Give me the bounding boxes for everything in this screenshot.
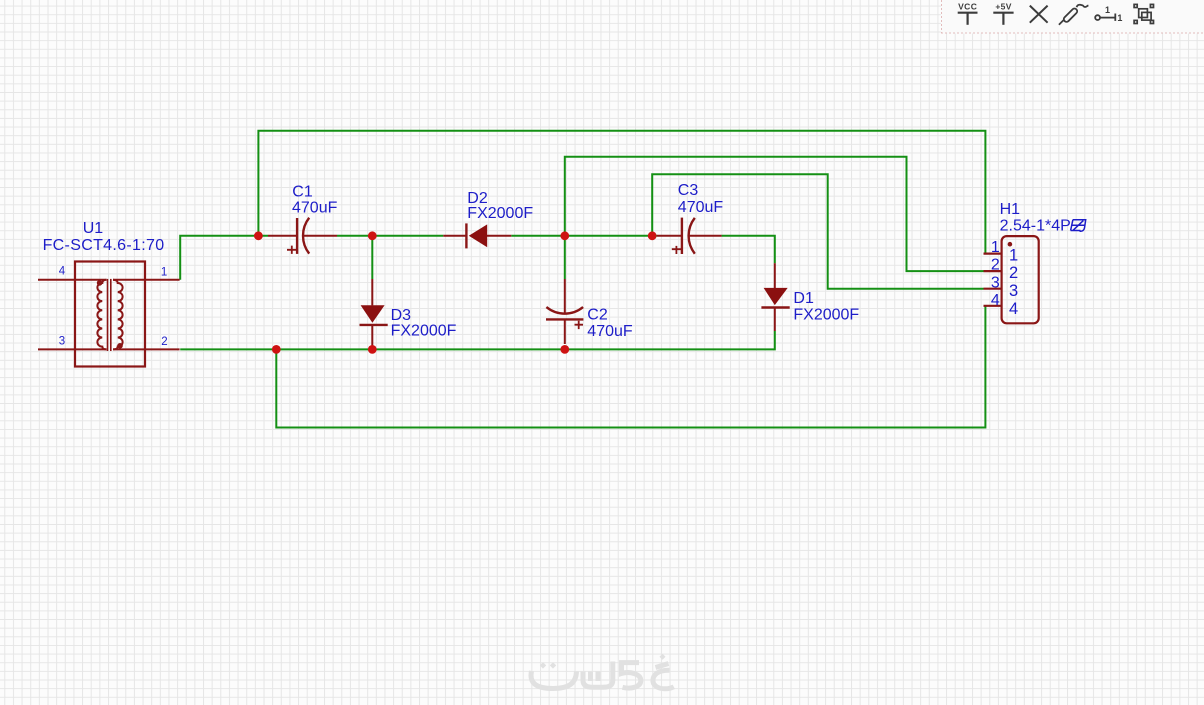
svg-text:2: 2 <box>161 336 167 348</box>
diode D1 <box>761 263 789 331</box>
svg-text:FX2000F: FX2000F <box>391 323 457 340</box>
svg-text:1: 1 <box>161 267 167 279</box>
toolbar icon VCC <box>958 13 978 25</box>
svg-text:470uF: 470uF <box>678 199 724 216</box>
toolbar icon no-connect X <box>1030 6 1048 23</box>
watermark khamsat <box>531 654 674 689</box>
diode D3 <box>360 279 388 346</box>
wire top rail segment c <box>511 235 565 237</box>
junction top C3 <box>648 231 657 240</box>
wire bottom loop <box>276 306 985 428</box>
svg-text:3: 3 <box>1009 282 1018 300</box>
junction bottom D3 <box>368 345 377 354</box>
pin numbers U1 <box>59 265 168 347</box>
svg-text:3: 3 <box>991 275 1000 292</box>
svg-text:D3: D3 <box>391 307 412 324</box>
wire D3 top stub <box>371 236 373 279</box>
pin numbers H1 outer <box>991 239 1000 309</box>
wire top rail segment a <box>180 236 268 280</box>
toolbar panel <box>941 0 1204 34</box>
svg-text:470uF: 470uF <box>587 323 633 340</box>
wire top rail segment d <box>565 235 657 237</box>
svg-text:H1: H1 <box>1000 201 1021 218</box>
svg-text:VCC: VCC <box>958 2 977 12</box>
wire pin3 loop <box>652 174 983 288</box>
U1 phase dot secondary <box>117 343 123 349</box>
capacitor C2 <box>546 279 583 344</box>
svg-text:1: 1 <box>991 239 1000 256</box>
svg-text:3: 3 <box>59 335 65 347</box>
svg-text:FX2000F: FX2000F <box>467 205 533 222</box>
capacitor C1 <box>268 218 337 254</box>
toolbar icon pin <box>1095 14 1115 21</box>
svg-text:4: 4 <box>1009 300 1018 318</box>
svg-text:C3: C3 <box>678 182 699 199</box>
svg-text:470uF: 470uF <box>292 200 338 217</box>
svg-text:2.54-1*4P: 2.54-1*4P <box>1000 218 1071 235</box>
toolbar icon symbol/module <box>1134 4 1153 23</box>
H1 pin1 marker dot <box>1008 242 1013 247</box>
U1 phase dot primary <box>97 280 103 286</box>
transformer U1 <box>38 262 180 367</box>
junction top D3 <box>368 231 377 240</box>
label H1 CJK mu glyph <box>1071 220 1086 232</box>
wire C2 top stub <box>564 236 566 279</box>
junction bottom C2 <box>560 345 569 354</box>
svg-text:2: 2 <box>1009 264 1018 282</box>
svg-text:C1: C1 <box>292 184 313 201</box>
connector H1 <box>984 236 1039 323</box>
wire bottom rail <box>180 331 775 349</box>
wire top loop <box>258 131 985 254</box>
wire pin2 loop <box>565 157 984 271</box>
svg-text:1: 1 <box>1117 13 1122 23</box>
toolbar icon +5V <box>993 13 1013 25</box>
svg-text:4: 4 <box>59 265 66 277</box>
diode D2 <box>443 223 511 248</box>
svg-text:1: 1 <box>1009 247 1018 265</box>
svg-text:4: 4 <box>991 292 1000 309</box>
junction top C2 <box>560 231 569 240</box>
labels <box>43 182 1071 340</box>
svg-text:U1: U1 <box>83 220 104 237</box>
svg-text:C2: C2 <box>587 307 608 324</box>
junction bottom left <box>272 345 281 354</box>
junction top C1 left <box>254 231 263 240</box>
junction dots <box>254 231 657 353</box>
toolbar icon pen probe <box>1059 5 1089 25</box>
svg-text:2: 2 <box>991 257 1000 274</box>
svg-text:FX2000F: FX2000F <box>793 307 859 324</box>
svg-text:1: 1 <box>1105 5 1110 15</box>
wire top rail segment b <box>337 235 443 237</box>
wire top rail segment e to D1 <box>722 236 775 263</box>
svg-text:D1: D1 <box>793 290 814 307</box>
svg-text:+5V: +5V <box>995 2 1012 12</box>
svg-text:FC-SCT4.6-1:70: FC-SCT4.6-1:70 <box>43 237 165 254</box>
pin names H1 inner <box>1009 247 1018 318</box>
capacitor C3 <box>657 218 722 254</box>
